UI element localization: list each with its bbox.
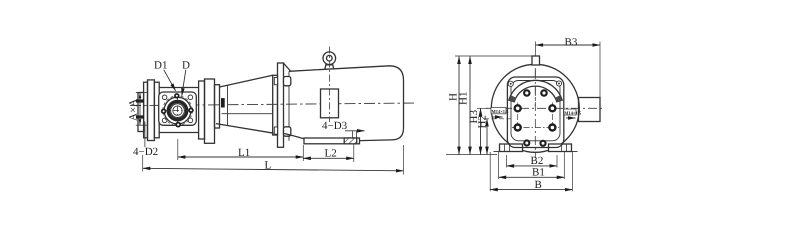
svg-text:B: B <box>535 179 542 191</box>
svg-text:4−D2: 4−D2 <box>133 146 158 158</box>
svg-text:M14×1.5: M14×1.5 <box>564 110 582 115</box>
svg-text:M14×1.5: M14×1.5 <box>492 109 510 114</box>
svg-text:B3: B3 <box>565 36 578 48</box>
svg-text:L: L <box>265 160 272 172</box>
svg-text:B1: B1 <box>532 167 545 179</box>
svg-text:L2: L2 <box>325 148 337 160</box>
svg-text:D1: D1 <box>154 60 167 72</box>
svg-text:L1: L1 <box>238 147 250 159</box>
svg-text:4−D3: 4−D3 <box>322 120 348 132</box>
svg-text:B2: B2 <box>531 155 544 167</box>
svg-text:D: D <box>182 60 190 72</box>
svg-text:H2: H2 <box>477 115 489 128</box>
svg-text:A×A: A×A <box>128 99 140 121</box>
svg-text:H1: H1 <box>458 92 470 105</box>
